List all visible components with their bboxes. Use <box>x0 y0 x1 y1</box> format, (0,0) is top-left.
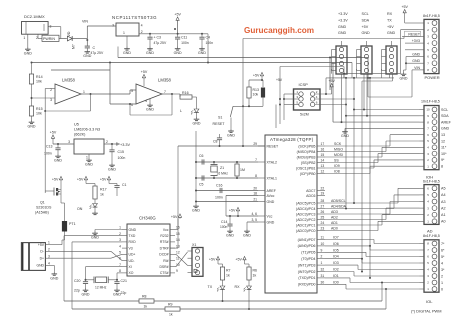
svg-text:GND: GND <box>123 51 131 55</box>
svg-text:+5V: +5V <box>401 5 408 9</box>
svg-text:12: 12 <box>321 170 325 174</box>
svg-text:(SCK)/PB5: (SCK)/PB5 <box>298 144 315 148</box>
svg-text:GND: GND <box>243 234 251 238</box>
svg-text:AD: AD <box>427 229 433 234</box>
svg-text:GND: GND <box>400 77 408 81</box>
svg-text:+ C3: + C3 <box>154 36 162 40</box>
svg-text:1M: 1M <box>240 168 245 172</box>
svg-text:SDA: SDA <box>362 18 370 22</box>
svg-text:3: 3 <box>48 254 50 258</box>
svg-text:R232: R232 <box>160 234 168 238</box>
svg-text:15: 15 <box>176 232 180 236</box>
svg-text:1: 1 <box>119 226 121 230</box>
svg-text:CTS#: CTS# <box>160 271 169 275</box>
svg-text:13: 13 <box>441 133 445 137</box>
svg-text:+5V: +5V <box>362 25 369 29</box>
svg-text:A4: A4 <box>441 193 446 197</box>
svg-text:LM358: LM358 <box>158 78 171 83</box>
svg-text:16 MHz: 16 MHz <box>217 172 229 176</box>
svg-text:ICSP: ICSP <box>299 82 309 87</box>
svg-text:5: 5 <box>131 89 133 93</box>
svg-text:GND: GND <box>198 51 206 55</box>
svg-text:10x1F-H8,5: 10x1F-H8,5 <box>421 100 440 104</box>
svg-text:2: 2 <box>48 248 50 252</box>
svg-text:TX: TX <box>208 285 213 289</box>
svg-text:GND: GND <box>338 25 347 29</box>
svg-text:(MISO)/PB4: (MISO)/PB4 <box>297 150 316 154</box>
svg-text:(ADC1)/PC1: (ADC1)/PC1 <box>296 223 316 227</box>
svg-text:GND: GND <box>267 220 275 224</box>
svg-text:GND: GND <box>412 53 420 57</box>
svg-text:(T0)/PD4: (T0)/PD4 <box>301 257 315 261</box>
svg-text:+5V: +5V <box>229 208 236 212</box>
svg-text:2: 2 <box>106 140 108 144</box>
svg-text:Vcc: Vcc <box>163 228 169 232</box>
svg-text:AVcc: AVcc <box>267 194 275 198</box>
svg-text:1: 1 <box>123 31 125 35</box>
svg-text:21: 21 <box>253 198 257 202</box>
svg-text:5*: 5* <box>441 255 445 259</box>
svg-text:M7: M7 <box>72 44 76 49</box>
svg-text:4: 4 <box>48 262 50 266</box>
svg-text:1k: 1k <box>169 313 173 317</box>
svg-text:ON: ON <box>77 207 83 211</box>
svg-text:(ADC3)/PC3: (ADC3)/PC3 <box>296 212 316 216</box>
svg-text:1: 1 <box>441 281 443 285</box>
svg-text:(662K): (662K) <box>74 133 86 137</box>
svg-text:GND: GND <box>226 234 234 238</box>
svg-text:12 MHz: 12 MHz <box>95 286 107 290</box>
svg-text:C21: C21 <box>121 279 127 283</box>
svg-text:5: 5 <box>119 251 121 255</box>
svg-text:1k: 1k <box>226 274 230 278</box>
svg-text:+5V: +5V <box>100 177 107 181</box>
svg-text:R13: R13 <box>253 88 259 92</box>
svg-text:+5V: +5V <box>235 257 242 261</box>
svg-text:ADC6: ADC6 <box>306 194 315 198</box>
svg-text:R17: R17 <box>100 188 107 192</box>
svg-text:47µ 25V: 47µ 25V <box>154 41 167 45</box>
svg-text:GND: GND <box>192 209 200 213</box>
svg-text:25: 25 <box>321 216 325 220</box>
svg-text:GND: GND <box>387 31 396 35</box>
svg-text:12: 12 <box>176 251 180 255</box>
svg-text:R16: R16 <box>182 91 189 95</box>
svg-text:20: 20 <box>253 187 257 191</box>
svg-text:11: 11 <box>321 236 325 240</box>
svg-text:100n: 100n <box>206 41 214 45</box>
svg-text:SS: SS <box>334 159 339 163</box>
svg-text:+5V: +5V <box>174 13 181 17</box>
svg-text:RESET: RESET <box>408 32 421 36</box>
svg-text:1: 1 <box>321 261 323 265</box>
svg-text:AD5/SCL: AD5/SCL <box>331 199 346 203</box>
svg-text:R14: R14 <box>36 75 43 79</box>
svg-text:TXD: TXD <box>129 234 136 238</box>
svg-text:C8: C8 <box>213 140 218 144</box>
svg-text:(INT1)/PD3: (INT1)/PD3 <box>298 263 316 267</box>
svg-text:UD+: UD+ <box>129 253 136 257</box>
svg-text:C13: C13 <box>46 145 52 149</box>
svg-text:(ADC2)/PC2: (ADC2)/PC2 <box>296 218 316 222</box>
svg-text:6: 6 <box>131 103 133 107</box>
svg-text:+5V: +5V <box>253 73 260 77</box>
svg-text:UD-: UD- <box>129 259 135 263</box>
svg-text:S2301DS: S2301DS <box>36 206 52 210</box>
svg-text:9: 9 <box>176 269 178 273</box>
svg-text:XI: XI <box>129 265 132 269</box>
svg-text:VIN: VIN <box>82 20 88 24</box>
svg-text:10: 10 <box>321 242 325 246</box>
svg-text:5x2M: 5x2M <box>300 113 309 117</box>
svg-text:15: 15 <box>321 153 325 157</box>
svg-text:+3.3V: +3.3V <box>338 18 348 22</box>
svg-text:C14: C14 <box>221 220 227 224</box>
svg-text:RX: RX <box>235 285 241 289</box>
svg-text:(INT0)/PD2: (INT0)/PD2 <box>298 270 316 274</box>
svg-text:7: 7 <box>164 90 166 94</box>
svg-text:17: 17 <box>321 142 325 146</box>
svg-text:3: 3 <box>50 98 52 102</box>
svg-text:C6: C6 <box>199 154 204 158</box>
svg-text:Q1: Q1 <box>40 201 45 205</box>
svg-text:3: 3 <box>112 23 114 27</box>
svg-text:7: 7 <box>119 263 121 267</box>
svg-text:C11: C11 <box>181 36 187 40</box>
svg-text:22p: 22p <box>121 291 127 295</box>
svg-text:24: 24 <box>321 221 325 225</box>
svg-text:RXD: RXD <box>129 240 137 244</box>
svg-text:IO6: IO6 <box>333 242 339 246</box>
svg-text:R15: R15 <box>36 107 43 111</box>
svg-text:IO7: IO7 <box>333 236 339 240</box>
svg-text:C5: C5 <box>199 183 204 187</box>
svg-text:1k: 1k <box>253 274 257 278</box>
svg-text:A1: A1 <box>441 213 446 217</box>
svg-text:AD0: AD0 <box>331 227 338 231</box>
svg-text:32: 32 <box>321 268 325 272</box>
svg-text:+3V3: +3V3 <box>412 39 420 43</box>
svg-text:(ICP)/PB0: (ICP)/PB0 <box>300 172 316 176</box>
svg-text:Vcc: Vcc <box>267 214 273 218</box>
svg-text:GND: GND <box>83 54 91 58</box>
svg-text:14: 14 <box>176 238 180 242</box>
svg-text:30: 30 <box>321 280 325 284</box>
svg-text:GND: GND <box>28 125 36 129</box>
svg-text:RTS#: RTS# <box>160 240 169 244</box>
svg-text:(MOSI)/PB3: (MOSI)/PB3 <box>297 155 316 159</box>
svg-text:IO8: IO8 <box>334 170 340 174</box>
svg-text:100n: 100n <box>220 225 228 229</box>
svg-text:GND: GND <box>129 228 137 232</box>
svg-text:C1: C1 <box>122 183 127 187</box>
svg-text:27: 27 <box>321 205 325 209</box>
svg-text:GND: GND <box>146 108 154 112</box>
svg-text:XTAL1: XTAL1 <box>267 176 277 180</box>
svg-text:GND: GND <box>441 127 450 131</box>
svg-text:8x1F-H8,5: 8x1F-H8,5 <box>423 14 440 18</box>
svg-text:10k: 10k <box>253 93 259 97</box>
svg-text:8: 8 <box>119 269 121 273</box>
svg-text:(AIN0)/PD6: (AIN0)/PD6 <box>298 244 316 248</box>
svg-text:GND: GND <box>50 276 58 280</box>
svg-text:GND: GND <box>54 159 62 163</box>
svg-text:31: 31 <box>321 274 325 278</box>
svg-text:9: 9 <box>321 248 323 252</box>
svg-text:IO0: IO0 <box>333 280 339 284</box>
svg-text:GND: GND <box>362 31 371 35</box>
svg-text:AD3: AD3 <box>331 210 338 214</box>
svg-text:(ADC5)/PC5: (ADC5)/PC5 <box>296 201 316 205</box>
svg-text:GND: GND <box>85 163 93 167</box>
svg-text:C16: C16 <box>216 184 222 188</box>
svg-text:RI#: RI# <box>163 259 168 263</box>
svg-text:18: 18 <box>253 192 257 196</box>
svg-text:2: 2 <box>321 255 323 259</box>
svg-text:V3: V3 <box>129 246 133 250</box>
svg-text:AD4/SDA: AD4/SDA <box>331 205 347 209</box>
svg-text:XTAL2: XTAL2 <box>267 160 277 164</box>
svg-text:(AIN1)/PD7: (AIN1)/PD7 <box>298 238 316 242</box>
svg-text:+5V: +5V <box>276 78 283 82</box>
svg-text:DTR#: DTR# <box>160 246 169 250</box>
svg-text:+5V: +5V <box>141 70 148 74</box>
svg-text:22: 22 <box>321 187 325 191</box>
svg-text:11*: 11* <box>441 146 447 150</box>
svg-text:13: 13 <box>176 244 180 248</box>
svg-text:GND: GND <box>267 200 275 204</box>
svg-text:AD1: AD1 <box>331 221 338 225</box>
svg-text:PWRIN: PWRIN <box>43 37 55 41</box>
svg-text:26: 26 <box>321 210 325 214</box>
svg-text:ADC7: ADC7 <box>306 189 315 193</box>
svg-text:(ADC0)/PC0: (ADC0)/PC0 <box>296 229 316 233</box>
svg-text:6*: 6* <box>441 248 445 252</box>
svg-text:POWER: POWER <box>425 75 440 80</box>
svg-text:A3: A3 <box>441 200 446 204</box>
svg-text:8x1F-H8,5: 8x1F-H8,5 <box>423 234 440 238</box>
svg-text:MISO: MISO <box>334 148 343 152</box>
svg-text:(TXD)/PD1: (TXD)/PD1 <box>298 276 315 280</box>
svg-text:100n: 100n <box>44 152 52 156</box>
svg-text:IO2: IO2 <box>333 268 339 272</box>
svg-text:2: 2 <box>141 30 143 34</box>
svg-text:R7: R7 <box>226 269 231 273</box>
svg-text:1k: 1k <box>100 193 104 197</box>
svg-text:4, 6: 4, 6 <box>252 212 258 216</box>
svg-text:+5V: +5V <box>77 177 84 181</box>
svg-text:+5V: +5V <box>38 243 45 247</box>
svg-text:X1: X1 <box>192 243 196 247</box>
svg-text:VD: VD <box>67 31 71 36</box>
svg-text:14: 14 <box>321 159 325 163</box>
svg-text:0: 0 <box>441 287 443 291</box>
svg-text:+5V: +5V <box>171 215 178 219</box>
svg-text:SCL: SCL <box>441 108 448 112</box>
svg-text:A2: A2 <box>441 206 446 210</box>
svg-text:AREF: AREF <box>267 189 276 193</box>
svg-text:C15: C15 <box>118 150 124 154</box>
svg-text:GND: GND <box>36 264 44 268</box>
svg-text:+3.3V: +3.3V <box>338 12 348 16</box>
svg-text:7*: 7* <box>441 242 445 246</box>
svg-text:GND: GND <box>24 52 32 56</box>
svg-text:4: 4 <box>441 261 443 265</box>
svg-text:D-: D- <box>40 250 44 254</box>
svg-text:IO3: IO3 <box>333 261 339 265</box>
svg-text:8: 8 <box>441 165 443 169</box>
svg-text:10k: 10k <box>36 80 42 84</box>
svg-text:29: 29 <box>253 142 257 146</box>
svg-text:DSR#: DSR# <box>159 265 168 269</box>
svg-text:7: 7 <box>255 158 257 162</box>
svg-text:+5V: +5V <box>328 79 335 83</box>
svg-text:4: 4 <box>119 244 121 248</box>
svg-text:L: L <box>180 109 182 113</box>
svg-text:PT1: PT1 <box>69 222 76 226</box>
svg-text:SCL: SCL <box>362 12 369 16</box>
svg-text:ATmega328 (TQFP): ATmega328 (TQFP) <box>270 137 314 142</box>
svg-text:12: 12 <box>441 139 445 143</box>
svg-text:GND: GND <box>146 51 154 55</box>
svg-text:R8: R8 <box>142 295 147 299</box>
svg-text:D+: D+ <box>40 257 44 261</box>
svg-text:IO1: IO1 <box>333 274 339 278</box>
svg-text:U5: U5 <box>74 123 79 127</box>
svg-text:16: 16 <box>321 148 325 152</box>
svg-text:6x1F-H8,5: 6x1F-H8,5 <box>423 180 440 184</box>
svg-text:100n: 100n <box>118 156 126 160</box>
svg-text:3: 3 <box>68 140 70 144</box>
svg-text:GND: GND <box>341 134 349 138</box>
svg-text:1: 1 <box>48 241 50 245</box>
svg-text:GND: GND <box>91 236 99 240</box>
svg-text:RX: RX <box>387 12 393 16</box>
svg-text:28: 28 <box>321 199 325 203</box>
svg-text:Z1: Z1 <box>220 166 224 170</box>
svg-text:13: 13 <box>321 164 325 168</box>
svg-text:19: 19 <box>321 192 325 196</box>
svg-text:XO: XO <box>129 271 134 275</box>
svg-text:C20: C20 <box>74 279 80 283</box>
svg-text:LM6206-3.3 N3: LM6206-3.3 N3 <box>74 128 100 132</box>
svg-text:IOL: IOL <box>426 299 433 304</box>
svg-text:3*: 3* <box>441 268 445 272</box>
svg-text:2: 2 <box>441 274 443 278</box>
svg-text:GND: GND <box>412 59 420 63</box>
svg-text:10*: 10* <box>441 152 447 156</box>
svg-text:100n: 100n <box>215 196 223 200</box>
svg-text:3: 3 <box>119 238 121 242</box>
svg-text:C: C <box>93 46 96 50</box>
svg-text:+5V: +5V <box>387 25 394 29</box>
svg-text:(A15HB): (A15HB) <box>35 211 49 215</box>
svg-text:(*) DIGITAL PWM: (*) DIGITAL PWM <box>411 309 441 314</box>
svg-text:(OSC1)/PB1: (OSC1)/PB1 <box>296 166 316 170</box>
svg-text:A0: A0 <box>441 220 446 224</box>
svg-text:R6: R6 <box>253 269 258 273</box>
svg-text:A5: A5 <box>441 187 446 191</box>
svg-text:1: 1 <box>83 90 85 94</box>
svg-text:+5V: +5V <box>209 257 216 261</box>
svg-text:GND: GND <box>108 168 116 172</box>
svg-text:GND: GND <box>338 31 347 35</box>
svg-text:(SS)/PB2: (SS)/PB2 <box>301 161 316 165</box>
svg-text:GND: GND <box>193 122 201 126</box>
svg-text:AD2: AD2 <box>331 216 338 220</box>
svg-text:RESET: RESET <box>213 122 226 126</box>
svg-text:SCK: SCK <box>334 142 342 146</box>
svg-text:+5V: +5V <box>50 131 57 135</box>
svg-text:LM358: LM358 <box>62 78 75 83</box>
svg-text:23: 23 <box>321 227 325 231</box>
svg-text:SDA: SDA <box>441 114 449 118</box>
svg-text:100n: 100n <box>181 41 189 45</box>
svg-text:1k: 1k <box>144 305 148 309</box>
svg-text:1: 1 <box>86 156 88 160</box>
svg-text:IO5: IO5 <box>333 248 339 252</box>
svg-text:CH340G: CH340G <box>139 216 156 221</box>
svg-text:9*: 9* <box>441 158 445 162</box>
svg-text:GND: GND <box>174 51 182 55</box>
svg-text:RESET: RESET <box>267 144 280 148</box>
svg-text:+5V: +5V <box>52 177 59 181</box>
svg-text:GND: GND <box>227 133 235 137</box>
svg-text:Gurucanggih.com: Gurucanggih.com <box>244 26 314 35</box>
svg-text:VIN: VIN <box>414 66 420 70</box>
svg-text:(ADC4)/PC4: (ADC4)/PC4 <box>296 207 316 211</box>
svg-text:AREF: AREF <box>441 120 452 124</box>
svg-text:TX: TX <box>387 18 392 22</box>
svg-text:2: 2 <box>119 232 121 236</box>
svg-text:22p: 22p <box>74 289 80 293</box>
svg-text:3, 5: 3, 5 <box>252 218 258 222</box>
svg-text:GND: GND <box>82 293 90 297</box>
svg-text:DC2.1MMX: DC2.1MMX <box>24 14 45 19</box>
svg-text:10k: 10k <box>36 112 42 116</box>
svg-text:4: 4 <box>145 99 147 103</box>
svg-text:IO9: IO9 <box>334 164 340 168</box>
svg-text:(RXD)/PD0: (RXD)/PD0 <box>298 283 316 287</box>
svg-text:S1: S1 <box>218 116 222 120</box>
svg-text:NCP1117ST50T3G: NCP1117ST50T3G <box>112 15 157 20</box>
svg-text:4: 4 <box>141 24 143 28</box>
svg-text:DCD#: DCD# <box>159 253 168 257</box>
svg-text:(T1)/PD5: (T1)/PD5 <box>301 251 315 255</box>
svg-text:IO4: IO4 <box>333 255 339 259</box>
svg-text:R9: R9 <box>168 303 173 307</box>
svg-text:47µ 25V: 47µ 25V <box>91 51 104 55</box>
svg-text:MOSI: MOSI <box>334 153 343 157</box>
svg-text:1: 1 <box>23 36 25 40</box>
svg-text:10: 10 <box>426 108 430 112</box>
svg-text:+3.3V: +3.3V <box>120 143 130 147</box>
svg-text:8: 8 <box>255 174 257 178</box>
